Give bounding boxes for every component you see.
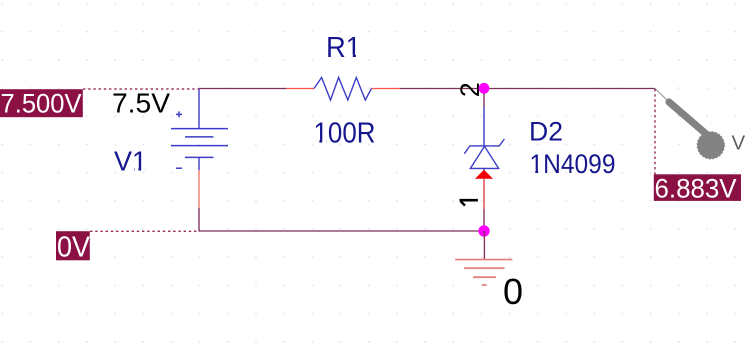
resistor R1 <box>286 78 400 101</box>
serif patches to mimic Arial-style digit 1 <box>135 54 543 174</box>
svg-text:0: 0 <box>503 271 523 312</box>
svg-text:7.5V: 7.5V <box>112 88 170 119</box>
svg-text:1N4099: 1N4099 <box>530 149 616 179</box>
wire top: battery top to resistor <box>199 88 286 90</box>
net label 7.500V <box>0 88 199 118</box>
svg-text:6.883V: 6.883V <box>655 173 737 203</box>
pin 1 <box>460 200 478 205</box>
svg-text:7.500V: 7.500V <box>1 88 82 118</box>
wire: node 2 down to diode <box>483 93 485 107</box>
probe reading 6.883V <box>654 89 741 203</box>
ground symbol <box>455 231 512 285</box>
svg-text:0V: 0V <box>57 231 91 263</box>
wire bottom: battery bottom to ground node <box>199 208 484 231</box>
junction node 1 (ground node) <box>478 225 489 236</box>
junction node 2 <box>479 83 490 94</box>
svg-text:V: V <box>732 131 746 154</box>
voltage source V1 (battery) <box>171 89 228 209</box>
svg-text:R1: R1 <box>326 32 361 64</box>
wire top: resistor to probe corner <box>400 88 655 90</box>
svg-text:100R: 100R <box>314 118 376 150</box>
zener diode D2 <box>464 107 504 209</box>
svg-text:V1: V1 <box>114 146 147 177</box>
net label 0V <box>56 231 199 263</box>
svg-text:D2: D2 <box>529 116 563 146</box>
wire: diode bottom to node 1 <box>483 209 485 226</box>
voltage probe <box>655 89 724 159</box>
